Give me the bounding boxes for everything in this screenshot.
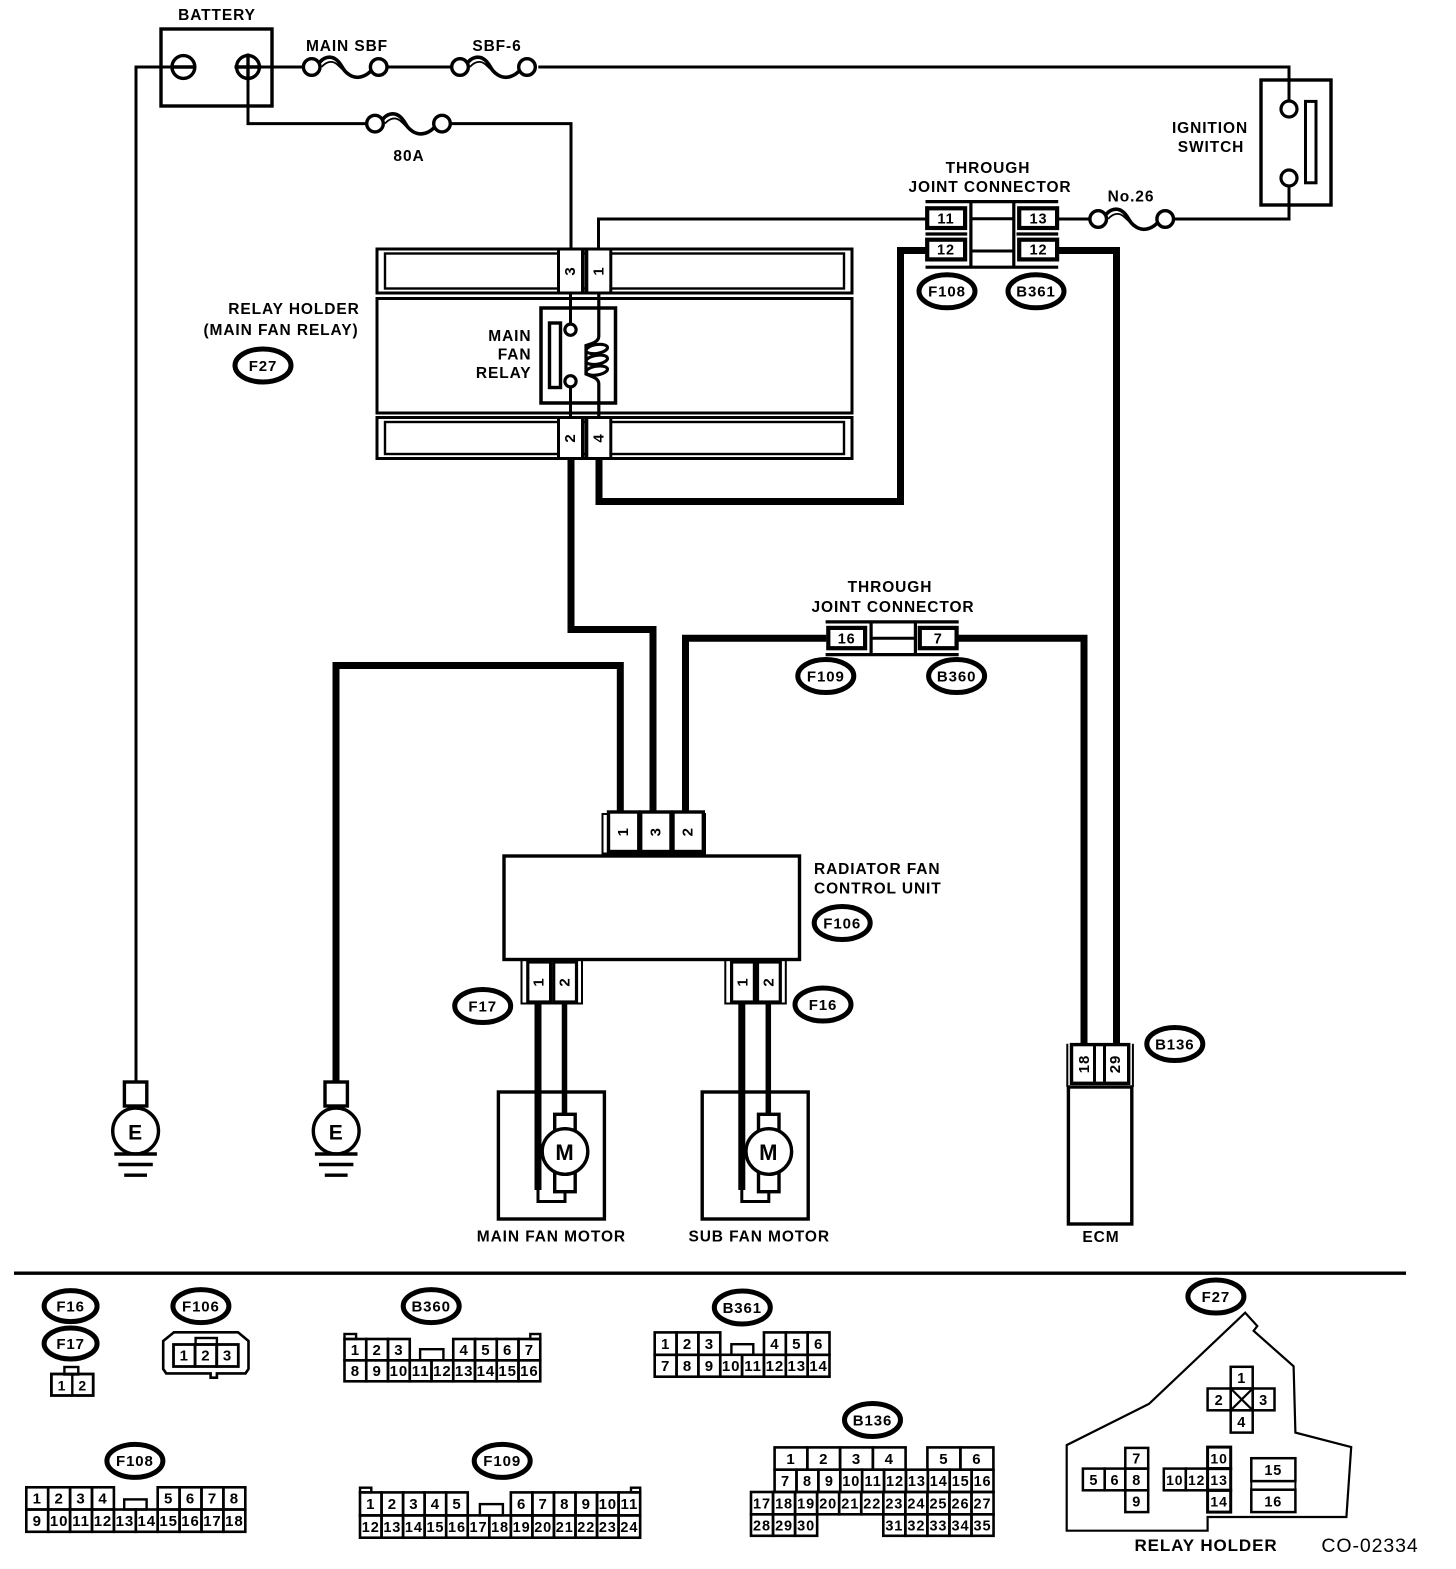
svg-text:F106: F106 (823, 915, 861, 932)
svg-text:18: 18 (491, 1520, 509, 1536)
svg-text:6: 6 (517, 1496, 526, 1513)
control unit F17 pin 2 (554, 962, 577, 1002)
svg-text:22: 22 (577, 1520, 595, 1536)
wire main fan motor pin 2 (562, 1004, 568, 1115)
svg-text:10: 10 (1166, 1472, 1183, 1488)
svg-text:SUB FAN MOTOR: SUB FAN MOTOR (688, 1229, 829, 1246)
main fan relay label (476, 328, 532, 382)
svg-text:1: 1 (366, 1496, 375, 1513)
svg-text:20: 20 (534, 1520, 552, 1536)
svg-text:30: 30 (797, 1518, 815, 1534)
wire MAIN SBF to SBF-6 (387, 66, 452, 69)
svg-text:24: 24 (907, 1496, 925, 1512)
svg-text:2: 2 (388, 1496, 397, 1513)
pinout F16 oval (44, 1291, 97, 1322)
svg-text:23: 23 (885, 1496, 903, 1512)
svg-text:35: 35 (974, 1518, 992, 1534)
svg-text:(MAIN FAN RELAY): (MAIN FAN RELAY) (203, 322, 358, 339)
wire TJC pin 11 to relay pin 1 (599, 219, 928, 250)
svg-text:19: 19 (513, 1520, 531, 1536)
svg-text:F17: F17 (468, 998, 497, 1015)
svg-text:14: 14 (930, 1474, 948, 1490)
svg-text:28: 28 (753, 1518, 771, 1534)
svg-text:E: E (329, 1122, 344, 1145)
svg-text:23: 23 (599, 1520, 617, 1536)
svg-text:3: 3 (562, 266, 579, 275)
svg-text:1: 1 (735, 977, 752, 986)
connector B136 oval (1147, 1028, 1203, 1061)
svg-text:SWITCH: SWITCH (1178, 139, 1245, 156)
svg-text:3: 3 (223, 1348, 232, 1365)
svg-text:11: 11 (412, 1363, 430, 1380)
svg-text:7: 7 (539, 1496, 548, 1513)
svg-text:16: 16 (181, 1513, 200, 1530)
svg-text:MAIN FAN MOTOR: MAIN FAN MOTOR (477, 1229, 626, 1246)
svg-text:13: 13 (116, 1513, 135, 1530)
TJC pin 7 (B360) (920, 628, 957, 648)
relay holder label (203, 301, 359, 339)
svg-text:8: 8 (560, 1496, 569, 1513)
svg-text:12: 12 (1030, 243, 1048, 259)
svg-text:9: 9 (373, 1363, 382, 1380)
svg-text:19: 19 (797, 1496, 815, 1512)
svg-text:3: 3 (647, 827, 664, 836)
svg-text:THROUGH: THROUGH (946, 160, 1031, 177)
wire 80A fuse to relay pin 3 (450, 124, 571, 250)
svg-text:27: 27 (974, 1496, 992, 1512)
svg-text:17: 17 (753, 1496, 771, 1512)
svg-text:MAIN SBF: MAIN SBF (306, 38, 388, 55)
svg-text:4: 4 (431, 1496, 440, 1513)
svg-text:3: 3 (705, 1336, 714, 1353)
svg-text:E: E (128, 1122, 143, 1145)
svg-text:15: 15 (1264, 1463, 1282, 1479)
svg-text:17: 17 (470, 1520, 488, 1536)
svg-text:1: 1 (1237, 1371, 1246, 1387)
svg-text:4: 4 (885, 1451, 894, 1468)
fuse SBF-6 (452, 57, 536, 77)
svg-text:CO-02334: CO-02334 (1321, 1535, 1418, 1557)
svg-text:24: 24 (620, 1520, 638, 1536)
svg-text:JOINT CONNECTOR: JOINT CONNECTOR (811, 599, 974, 616)
pinout F106 oval (173, 1290, 229, 1323)
svg-text:10: 10 (50, 1513, 69, 1530)
sub fan motor motor M (746, 1129, 792, 1175)
radiator fan control unit label (814, 861, 942, 898)
svg-text:11: 11 (621, 1496, 639, 1513)
main fan relay RY1 (541, 293, 616, 418)
svg-text:IGNITION: IGNITION (1172, 120, 1248, 137)
svg-text:14: 14 (1210, 1494, 1227, 1510)
ECM U2 (1068, 1087, 1131, 1224)
radiator fan control unit top connector shell (603, 814, 706, 854)
svg-text:12: 12 (1188, 1472, 1205, 1488)
svg-text:8: 8 (1132, 1473, 1141, 1489)
svg-text:B361: B361 (1016, 284, 1055, 301)
connector F106 oval (814, 907, 870, 940)
svg-text:80A: 80A (393, 148, 424, 165)
svg-text:5: 5 (1089, 1473, 1098, 1489)
wire battery negative to ground E lead (136, 67, 172, 1082)
svg-text:RELAY: RELAY (476, 365, 532, 382)
TJC pin 13 (B361) (1019, 208, 1057, 228)
TJC pin 11 (F108) (927, 208, 965, 228)
ground E2 (313, 1082, 359, 1175)
ECM connector pins (1072, 1045, 1129, 1084)
pinout connector B360 (345, 1334, 541, 1381)
TJC pin 12 (F108) (927, 240, 965, 260)
svg-text:8: 8 (683, 1358, 692, 1375)
svg-text:6: 6 (972, 1451, 981, 1468)
svg-text:33: 33 (929, 1518, 947, 1534)
control unit F16 pin 2 (758, 962, 781, 1002)
svg-text:12: 12 (766, 1358, 785, 1375)
svg-text:3: 3 (394, 1342, 403, 1359)
svg-text:3: 3 (76, 1491, 85, 1508)
svg-text:6: 6 (814, 1336, 823, 1353)
svg-text:2: 2 (819, 1451, 828, 1468)
svg-text:29: 29 (1107, 1055, 1124, 1074)
relay holder pictorial cross 1-4 (1208, 1367, 1275, 1433)
relay holder pictorial cross 5-9 (1083, 1448, 1148, 1512)
svg-text:RELAY HOLDER: RELAY HOLDER (228, 301, 359, 318)
svg-text:9: 9 (33, 1513, 42, 1530)
through joint connector F109/B360 body (826, 622, 959, 655)
pinout connector B361 (655, 1332, 830, 1376)
pinout F109 oval (474, 1444, 530, 1477)
wire control unit pin 1 to ground E lead (336, 666, 620, 1083)
through joint connector (F108/B361) label (908, 160, 1071, 196)
svg-text:M: M (555, 1140, 574, 1165)
svg-text:F16: F16 (56, 1298, 85, 1315)
pinout connector F106 (163, 1332, 248, 1377)
svg-text:2: 2 (1215, 1393, 1224, 1409)
svg-text:13: 13 (1030, 211, 1048, 227)
wire relay pin 2 to control unit pin 3 (571, 459, 653, 814)
battery negative terminal (172, 56, 195, 79)
svg-text:14: 14 (477, 1363, 496, 1380)
battery positive terminal (235, 54, 262, 81)
svg-text:4: 4 (98, 1491, 107, 1508)
svg-text:22: 22 (863, 1496, 881, 1512)
svg-text:18: 18 (775, 1496, 793, 1512)
svg-text:1: 1 (786, 1451, 795, 1468)
wire No.26 fuse to through joint connector pin 13 (1019, 218, 1090, 221)
svg-text:7: 7 (525, 1342, 534, 1359)
connector F108 oval (919, 275, 975, 308)
svg-text:9: 9 (1132, 1495, 1141, 1511)
svg-text:21: 21 (841, 1496, 859, 1512)
fuse No.26 (1090, 209, 1174, 229)
connector F16 oval (795, 988, 851, 1021)
connector B360 oval (929, 660, 985, 693)
svg-text:JOINT CONNECTOR: JOINT CONNECTOR (908, 179, 1071, 196)
connector F27 oval (235, 349, 291, 382)
control unit F17 pin 1 (528, 962, 551, 1002)
svg-text:7: 7 (208, 1491, 217, 1508)
wire ignition switch to No.26 fuse (1174, 186, 1289, 219)
svg-text:MAIN: MAIN (488, 328, 531, 345)
svg-text:2: 2 (562, 433, 579, 442)
control unit right output connector shell (725, 960, 786, 1004)
svg-text:ECM: ECM (1082, 1229, 1119, 1246)
pinout B361 oval (714, 1291, 770, 1324)
svg-text:5: 5 (939, 1451, 948, 1468)
svg-text:F27: F27 (1202, 1289, 1231, 1306)
connector B361 oval (1008, 275, 1064, 308)
sub fan motor armature link (742, 1114, 779, 1201)
svg-text:2: 2 (55, 1491, 64, 1508)
connector F109 oval (798, 660, 854, 693)
wire TJC pin 16 to control unit pin 2 (686, 638, 827, 813)
pinout connector F108 (26, 1487, 245, 1532)
relay coil (585, 293, 608, 418)
svg-text:13: 13 (908, 1474, 926, 1490)
svg-text:RELAY HOLDER: RELAY HOLDER (1134, 1536, 1277, 1555)
svg-text:2: 2 (201, 1348, 210, 1365)
relay pin 1 (585, 249, 611, 293)
svg-text:7: 7 (934, 631, 943, 647)
svg-text:F27: F27 (249, 358, 278, 375)
svg-text:16: 16 (520, 1363, 539, 1380)
svg-text:21: 21 (556, 1520, 574, 1536)
relay pin 2 (559, 418, 583, 459)
svg-text:10: 10 (390, 1363, 409, 1380)
svg-text:25: 25 (929, 1496, 947, 1512)
svg-text:2: 2 (760, 977, 777, 986)
svg-text:12: 12 (94, 1513, 113, 1530)
svg-text:7: 7 (661, 1358, 670, 1375)
svg-text:3: 3 (1259, 1393, 1268, 1409)
relay holder pictorial cross 10-14 (1164, 1447, 1231, 1512)
pinout connector B136 (751, 1447, 994, 1535)
svg-text:FAN: FAN (498, 347, 532, 364)
svg-text:1: 1 (531, 977, 548, 986)
relay holder middle section (377, 299, 852, 414)
pinout F108 oval (107, 1444, 163, 1477)
fuse MAIN SBF (303, 57, 387, 77)
wire sub fan motor pin 1 (738, 1004, 745, 1191)
ECM connector shell (1067, 1044, 1133, 1087)
svg-text:14: 14 (138, 1513, 157, 1530)
svg-text:4: 4 (590, 433, 607, 442)
svg-text:1: 1 (661, 1336, 670, 1353)
svg-text:16: 16 (1264, 1495, 1282, 1511)
relay holder top bar (377, 249, 852, 293)
svg-text:11: 11 (937, 211, 954, 227)
fuse 80A (367, 114, 451, 134)
svg-text:6: 6 (1111, 1473, 1120, 1489)
svg-text:14: 14 (809, 1358, 828, 1375)
control unit pin 1 (609, 812, 639, 852)
wire battery positive to MAIN SBF fuse (259, 66, 303, 69)
svg-text:SBF-6: SBF-6 (472, 38, 521, 55)
svg-text:15: 15 (159, 1513, 178, 1530)
svg-text:5: 5 (164, 1491, 173, 1508)
separator line (14, 1271, 1406, 1274)
svg-text:6: 6 (186, 1491, 195, 1508)
svg-text:B361: B361 (723, 1300, 762, 1317)
svg-text:No.26: No.26 (1108, 189, 1155, 206)
sub fan motor box (702, 1092, 808, 1219)
svg-text:11: 11 (865, 1474, 882, 1490)
svg-text:1: 1 (33, 1491, 42, 1508)
svg-text:1: 1 (58, 1378, 67, 1394)
svg-text:THROUGH: THROUGH (848, 579, 933, 596)
svg-text:8: 8 (230, 1491, 239, 1508)
svg-text:15: 15 (426, 1520, 444, 1536)
svg-text:10: 10 (599, 1496, 618, 1513)
svg-text:12: 12 (937, 243, 955, 259)
svg-text:11: 11 (744, 1358, 762, 1375)
svg-text:B360: B360 (411, 1298, 450, 1315)
svg-text:5: 5 (481, 1342, 490, 1359)
svg-text:12: 12 (362, 1520, 380, 1536)
relay holder pictorial outline (1067, 1313, 1352, 1531)
svg-text:10: 10 (722, 1358, 741, 1375)
svg-text:4: 4 (770, 1336, 779, 1353)
svg-text:16: 16 (448, 1520, 466, 1536)
radiator fan control unit U1 (504, 856, 800, 960)
main fan motor box (498, 1092, 604, 1219)
svg-text:1: 1 (615, 827, 632, 836)
pinout connector F16/F17 (51, 1367, 93, 1396)
svg-text:16: 16 (838, 631, 856, 647)
svg-text:15: 15 (952, 1474, 970, 1490)
svg-text:31: 31 (885, 1518, 903, 1534)
svg-text:32: 32 (907, 1518, 925, 1534)
svg-text:F109: F109 (483, 1453, 521, 1470)
TJC pin 16 (F109) (828, 628, 865, 648)
svg-text:13: 13 (787, 1358, 806, 1375)
svg-text:7: 7 (781, 1474, 790, 1490)
svg-text:F108: F108 (928, 284, 966, 301)
relay pin 3 (559, 249, 583, 293)
svg-text:F17: F17 (56, 1336, 85, 1353)
svg-text:13: 13 (455, 1363, 474, 1380)
svg-text:12: 12 (886, 1474, 904, 1490)
svg-text:18: 18 (1076, 1055, 1093, 1074)
relay holder bottom bar (377, 418, 852, 459)
pinout B360 oval (403, 1290, 459, 1323)
wire TJC pin 7 to ECM pin 18 (957, 638, 1084, 1045)
svg-text:3: 3 (852, 1451, 861, 1468)
pinout F17 oval (44, 1328, 97, 1359)
svg-text:15: 15 (498, 1363, 517, 1380)
svg-text:F16: F16 (809, 997, 838, 1014)
svg-text:BATTERY: BATTERY (178, 7, 256, 24)
svg-text:B360: B360 (937, 668, 976, 685)
svg-text:1: 1 (351, 1342, 360, 1359)
relay pin 4 (585, 418, 611, 459)
svg-text:2: 2 (683, 1336, 692, 1353)
battery B1 (161, 29, 272, 106)
svg-text:1: 1 (180, 1348, 189, 1365)
svg-text:7: 7 (1132, 1452, 1141, 1468)
main fan motor motor M (542, 1129, 588, 1175)
svg-text:F109: F109 (807, 668, 845, 685)
svg-text:9: 9 (582, 1496, 591, 1513)
svg-text:9: 9 (825, 1474, 834, 1490)
svg-text:2: 2 (557, 977, 574, 986)
svg-text:F108: F108 (116, 1453, 154, 1470)
connector F17 oval (455, 990, 511, 1023)
svg-text:18: 18 (225, 1513, 244, 1530)
control unit pin 3 (641, 812, 671, 852)
svg-text:4: 4 (460, 1342, 469, 1359)
wire sub fan motor pin 2 (766, 1004, 772, 1115)
control unit left output connector shell (522, 960, 583, 1004)
svg-text:10: 10 (842, 1474, 860, 1490)
control unit F16 pin 1 (732, 962, 755, 1002)
through joint connector F108/B361 body (926, 202, 1059, 268)
wire relay pin 4 to TJC pin 12 (F108) (599, 251, 927, 502)
svg-text:4: 4 (1237, 1415, 1246, 1431)
svg-text:5: 5 (792, 1336, 801, 1353)
relay holder pictorial pins 15-16 (1251, 1458, 1295, 1512)
svg-text:9: 9 (705, 1358, 714, 1375)
svg-text:13: 13 (1210, 1472, 1227, 1488)
svg-text:6: 6 (503, 1342, 512, 1359)
pinout connector F109 (360, 1488, 640, 1538)
control unit pin 2 (673, 812, 703, 852)
svg-text:M: M (759, 1140, 778, 1165)
svg-text:34: 34 (952, 1518, 970, 1534)
svg-text:8: 8 (803, 1474, 812, 1490)
svg-text:F106: F106 (182, 1298, 220, 1315)
svg-text:12: 12 (433, 1363, 452, 1380)
ground E1 (113, 1082, 159, 1175)
svg-text:11: 11 (72, 1513, 90, 1530)
svg-text:1: 1 (590, 266, 607, 275)
svg-text:26: 26 (952, 1496, 970, 1512)
svg-text:17: 17 (203, 1513, 222, 1530)
svg-text:5: 5 (452, 1496, 461, 1513)
TJC pin 12 (B361) (1019, 240, 1057, 260)
wire battery positive to 80A fuse (248, 81, 367, 124)
svg-text:2: 2 (680, 827, 697, 836)
svg-text:2: 2 (78, 1378, 87, 1394)
through joint connector (F109/B360) label (811, 579, 974, 616)
svg-text:13: 13 (383, 1520, 401, 1536)
ignition switch SW1 (1261, 80, 1331, 205)
ignition switch label (1172, 120, 1248, 156)
svg-text:29: 29 (775, 1518, 793, 1534)
pinout F27 oval (1188, 1280, 1244, 1313)
svg-text:B136: B136 (853, 1412, 892, 1429)
pinout B136 oval (845, 1404, 901, 1437)
svg-text:2: 2 (373, 1342, 382, 1359)
main fan motor armature link (538, 1114, 575, 1201)
svg-text:16: 16 (974, 1474, 992, 1490)
svg-text:CONTROL UNIT: CONTROL UNIT (814, 881, 942, 898)
svg-text:RADIATOR FAN: RADIATOR FAN (814, 861, 940, 878)
svg-text:20: 20 (819, 1496, 837, 1512)
svg-text:10: 10 (1210, 1451, 1227, 1467)
wire SBF-6 to ignition switch (538, 67, 1289, 102)
svg-text:B136: B136 (1155, 1036, 1194, 1053)
wire TJC pin 12 (B361) to ECM pin 29 (1057, 251, 1116, 1046)
svg-text:8: 8 (351, 1363, 360, 1380)
wire main fan motor pin 1 (535, 1004, 542, 1191)
svg-text:14: 14 (405, 1520, 423, 1536)
svg-text:3: 3 (409, 1496, 418, 1513)
